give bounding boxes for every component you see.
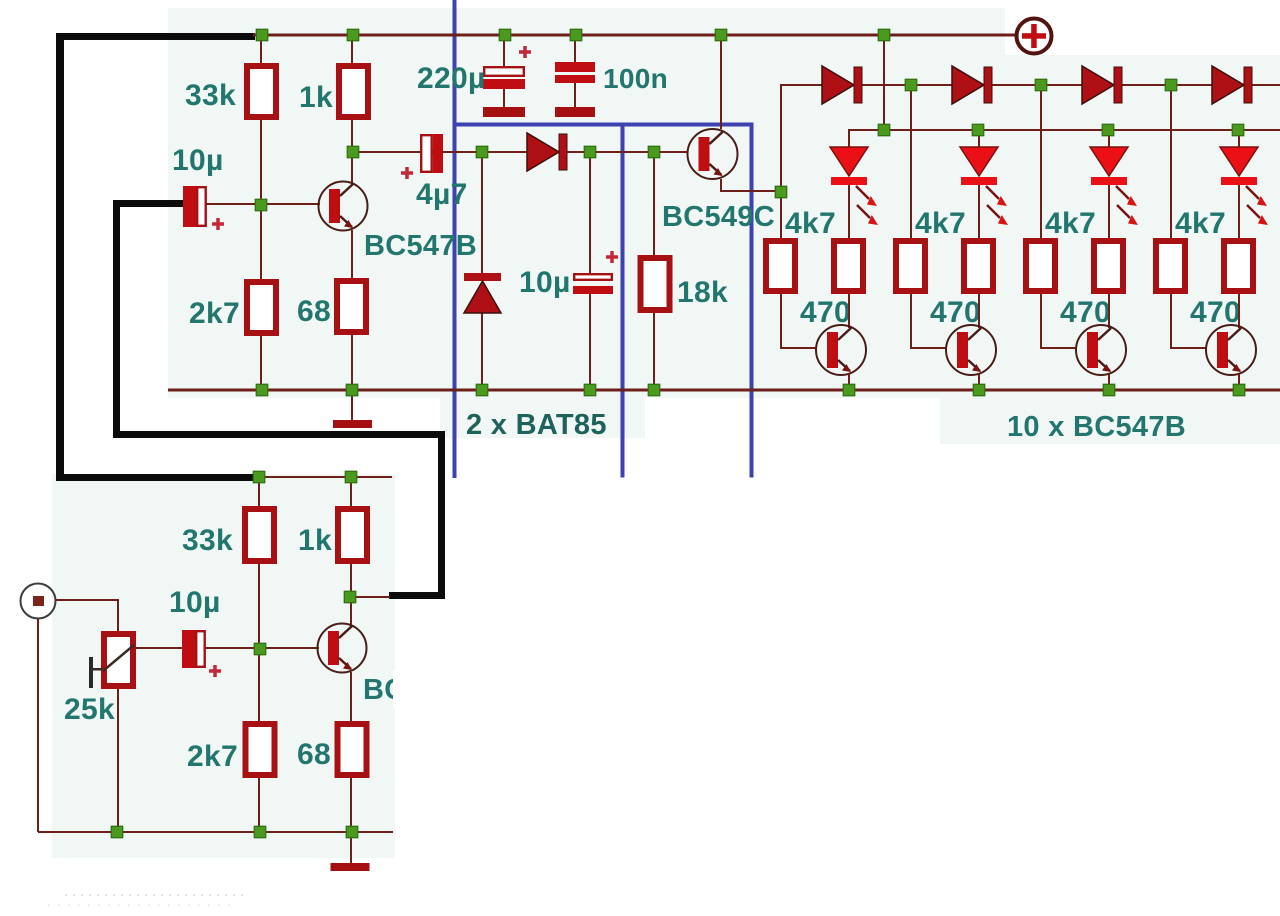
wire stage2 1k column [350,478,352,506]
resistor R4 68 [337,281,366,332]
svg-text:220µ: 220µ [417,62,486,95]
svg-text:10µ: 10µ [519,266,571,299]
node junctions signal line [347,146,359,158]
wire node A column [481,153,483,273]
capacitor C1 10u input [183,186,196,227]
diode chain D3 [1082,66,1114,104]
wire base Q1 [205,203,320,205]
svg-text:4µ7: 4µ7 [416,178,468,211]
resistor 470 cell1 [834,241,863,291]
svg-text:33k: 33k [185,79,236,112]
wire 33k column [260,37,262,63]
svg-text:10 x BC547B: 10 x BC547B [1007,411,1186,443]
capacitor C5 10u reservoir [574,274,612,280]
diode chain D4 [1212,66,1244,104]
resistor 470 cell2 [964,241,993,291]
faint artifact dots [65,894,245,896]
wire connector to pot [56,599,119,601]
resistor R9 68 [338,724,367,775]
capacitor C6 10u stage2 [182,630,195,668]
ground symbol stage1 [351,392,353,420]
svg-text:4k7: 4k7 [1175,207,1226,240]
node junctions top rail [256,29,268,41]
svg-text:4k7: 4k7 [1045,207,1096,240]
transistor Q1 BC547B [319,182,368,231]
wire LED anode rail [848,129,1280,131]
transistor Q3 BC547B stage2 [318,624,367,673]
svg-text:1k: 1k [299,81,333,114]
transistor Q2 BC549C collector wire [720,37,722,129]
svg-text:1k: 1k [298,524,332,557]
input connector J1 [21,584,56,619]
node junctions anode rail [878,124,890,136]
svg-text:10µ: 10µ [169,586,221,619]
power +V terminal [1017,19,1052,54]
resistor R7 1k [338,509,367,561]
wire Q2 emitter [720,179,722,191]
LED D1 [848,130,850,148]
resistor 470 cell3 [1094,241,1123,291]
transistor cell4 [1238,294,1240,328]
svg-text:68: 68 [297,295,331,328]
svg-text:18k: 18k [677,276,728,309]
svg-text:2k7: 2k7 [187,740,238,773]
svg-text:2k7: 2k7 [189,297,240,330]
svg-text:4k7: 4k7 [785,207,836,240]
wire 100n column [574,37,576,62]
resistor 4k7 cell2 [896,241,925,291]
wire cell1 base rail [780,86,782,238]
svg-text:100n: 100n [603,63,668,94]
svg-text:68: 68 [297,738,331,771]
wire node B column [589,153,591,273]
LED D4 [1238,130,1240,148]
ground symbol stage2 [350,834,352,863]
wire stage2 collector stub to black wire [356,596,390,598]
wire ground rail [168,389,1280,392]
node junction Q2 emitter [775,186,787,198]
node junctions diode chain [905,79,917,91]
svg-text:2 x BAT85: 2 x BAT85 [466,409,607,441]
LED D3 [1108,130,1110,148]
node junction Q1 base [255,199,267,211]
wire connector ground [37,619,39,832]
wire diode chain rail [780,84,1280,86]
resistor 4k7 cell3 [1026,241,1055,291]
resistor R8 2k7 [246,724,275,775]
svg-text:4k7: 4k7 [915,207,966,240]
blue line horizontal [453,123,753,127]
resistor R6 33k [245,509,274,561]
wire 220u column [503,37,505,66]
tint region second stage [52,474,395,858]
diode D2 BAT85 shunt [464,273,501,281]
capacitor C2 220u [484,67,524,76]
wire cell3 base rail [1040,86,1042,238]
resistor R5 18k [641,258,670,310]
svg-text:470: 470 [800,296,851,329]
blue line vertical 3 [750,123,754,478]
diode chain D2 [952,66,984,104]
wire +V top rail [253,34,1016,37]
svg-text:10µ: 10µ [172,144,224,177]
wire collector signal out [353,151,688,153]
wire stage2 base [204,647,319,649]
LED D2 [978,130,980,148]
wire stage2 33k column [258,478,260,506]
resistor 4k7 cell4 [1156,241,1185,291]
wire cell4 base rail [1170,86,1172,238]
svg-text:BC549C: BC549C [662,201,775,233]
capacitor C4 4u7 [421,135,432,172]
wire stage2 ground rail [38,831,393,833]
transistor cell3 [1108,294,1110,328]
blue line vertical 2 [621,123,625,478]
svg-text:25k: 25k [64,693,115,726]
transistor cell1 [848,294,850,328]
wire +V feed to anode rail [883,37,885,129]
svg-text:470: 470 [1060,296,1111,329]
wire pot bottom [117,689,119,832]
resistor R1 33k [247,66,276,117]
node junctions stage2 [253,471,265,483]
resistor R2 1k [339,66,368,117]
wire 18k column [653,153,655,255]
wire 1k collector column [351,37,353,63]
tint region main circuit [168,8,1005,398]
black wire stage2 output to stage1 input [113,200,183,207]
transistor Q2 BC549C [688,129,738,179]
transistor cell2 [978,294,980,328]
resistor R3 2k7 [247,282,276,333]
diode chain D1 [822,66,854,104]
wire cell2 base rail [910,86,912,238]
diode D1 BAT85 [527,133,559,171]
svg-text:470: 470 [930,296,981,329]
svg-text:33k: 33k [182,524,233,557]
resistor 470 cell4 [1224,241,1253,291]
wire stage2 supply rail [259,476,392,478]
potentiometer P1 25k [104,634,133,686]
capacitor C3 100n [555,62,595,72]
blue line vertical 1 [453,0,457,478]
wire pot wiper to cap [136,647,182,649]
black wire supply loop [56,33,255,40]
svg-text:BC547B: BC547B [364,230,477,262]
resistor 4k7 cell1 [766,241,795,291]
svg-text:470: 470 [1190,296,1241,329]
node junctions ground rail [256,384,268,396]
